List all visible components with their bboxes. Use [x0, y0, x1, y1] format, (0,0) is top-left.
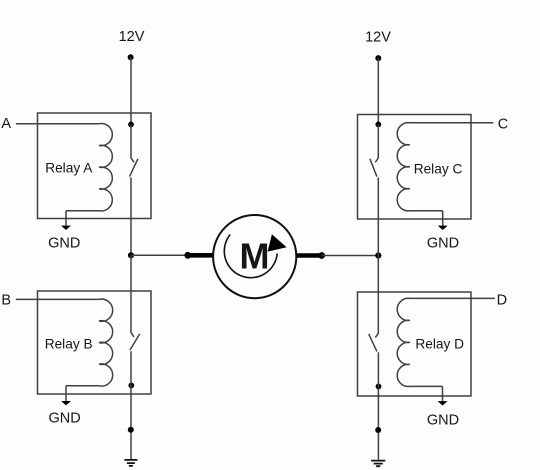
svg-text:GND: GND	[48, 411, 80, 427]
relay D switch	[369, 333, 379, 351]
wire left node to motor lead	[131, 254, 188, 256]
wire relay D switch to ground	[377, 352, 379, 459]
wire right node to relay D switch	[377, 256, 379, 334]
relay C switch	[370, 124, 378, 176]
relay D coil GND lead	[442, 386, 444, 401]
12V terminal dot (left)	[128, 54, 134, 60]
svg-text:Relay B: Relay B	[45, 336, 93, 351]
wire node A to relay A coil	[16, 123, 99, 125]
relay D coil	[397, 298, 442, 386]
relay B switch	[130, 333, 140, 351]
motor rotation arrow arc	[224, 235, 277, 278]
relay B coil	[66, 299, 113, 386]
relay C switch common dot	[375, 122, 381, 128]
relay B coil GND lead	[65, 386, 67, 402]
wire motor lead to right node	[322, 255, 379, 257]
svg-text:Relay C: Relay C	[414, 161, 463, 176]
12V terminal dot (right)	[375, 55, 381, 61]
svg-text:Relay A: Relay A	[45, 161, 93, 176]
motor right terminal dot	[318, 252, 325, 259]
svg-text:B: B	[1, 292, 11, 308]
right ground symbol	[371, 461, 385, 467]
motor left terminal dot	[184, 252, 191, 259]
relay B switch common dot	[128, 383, 134, 389]
wire 12V to relay A switch	[130, 57, 132, 124]
relay C GND arrow	[438, 226, 448, 230]
wire 12V to relay C switch	[377, 58, 379, 124]
svg-text:Relay D: Relay D	[415, 337, 464, 352]
wire node B to relay B coil	[16, 298, 99, 300]
relay A switch	[130, 124, 138, 176]
svg-text:12V: 12V	[365, 29, 391, 45]
relay A switch common dot	[128, 122, 134, 128]
wire left node to relay B switch	[130, 255, 132, 333]
relay A box	[38, 113, 152, 219]
relay D box	[358, 292, 472, 396]
svg-text:12V: 12V	[119, 29, 145, 45]
relay C coil GND lead	[442, 211, 444, 226]
svg-text:A: A	[1, 116, 11, 132]
motor rotation arrowhead	[268, 234, 287, 251]
relay D switch common dot	[376, 384, 382, 390]
wire node D to relay D coil	[409, 297, 495, 299]
right motor node junction dot	[375, 252, 381, 258]
wire node C to relay C coil	[409, 122, 493, 124]
motor M1 body	[213, 215, 296, 298]
svg-text:C: C	[498, 117, 508, 133]
left ground symbol	[124, 460, 137, 466]
svg-text:D: D	[497, 292, 507, 308]
relay A coil GND lead	[65, 211, 67, 226]
relay A GND arrow	[61, 226, 71, 230]
relay C box	[358, 115, 472, 220]
svg-text:GND: GND	[427, 412, 459, 428]
svg-text:M: M	[240, 236, 270, 277]
svg-text:GND: GND	[427, 236, 459, 252]
wire relay B switch to ground	[130, 351, 132, 459]
motor right thick lead	[296, 253, 322, 258]
left motor node junction dot	[128, 252, 134, 258]
relay D GND arrow	[438, 401, 448, 405]
relay B GND arrow	[61, 401, 71, 405]
wire relay C switch to right motor node	[377, 178, 379, 256]
wire relay A switch to left motor node	[130, 178, 132, 256]
svg-text:GND: GND	[48, 236, 80, 252]
left ground junction dot	[128, 427, 134, 433]
relay A coil	[66, 123, 112, 210]
right ground junction dot	[375, 427, 381, 433]
relay C coil	[397, 123, 442, 211]
relay B box	[38, 291, 152, 394]
motor left thick lead	[188, 253, 214, 258]
